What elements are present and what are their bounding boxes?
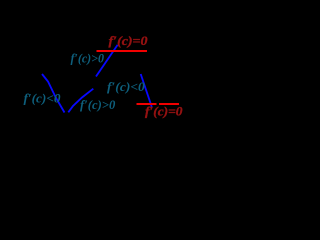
wire: descending stroke C (right, slope negative): [141, 74, 152, 107]
svg-text:f′(c)=0: f′(c)=0: [145, 104, 183, 119]
svg-text:f′(c)=0: f′(c)=0: [109, 33, 149, 48]
derivative-sign diagram: [0, 0, 220, 157]
svg-text:f′(c)>0: f′(c)>0: [71, 50, 105, 65]
wire: descending stroke A (left, slope negative): [42, 74, 65, 113]
svg-text:f′(c)<0: f′(c)<0: [107, 79, 145, 94]
wire: ascending stroke B1 (lower middle, slope positive): [68, 89, 93, 113]
tangent line T2 at minimum, right dash: [159, 103, 179, 105]
wire: ascending stroke B2 to the maximum: [96, 45, 118, 77]
svg-text:f′(c)>0: f′(c)>0: [80, 97, 116, 112]
tangent line T2 at minimum, left dash: [137, 103, 157, 105]
svg-text:f′(c)<0: f′(c)<0: [24, 91, 62, 106]
tangent line T1 at maximum (red): [97, 50, 148, 52]
